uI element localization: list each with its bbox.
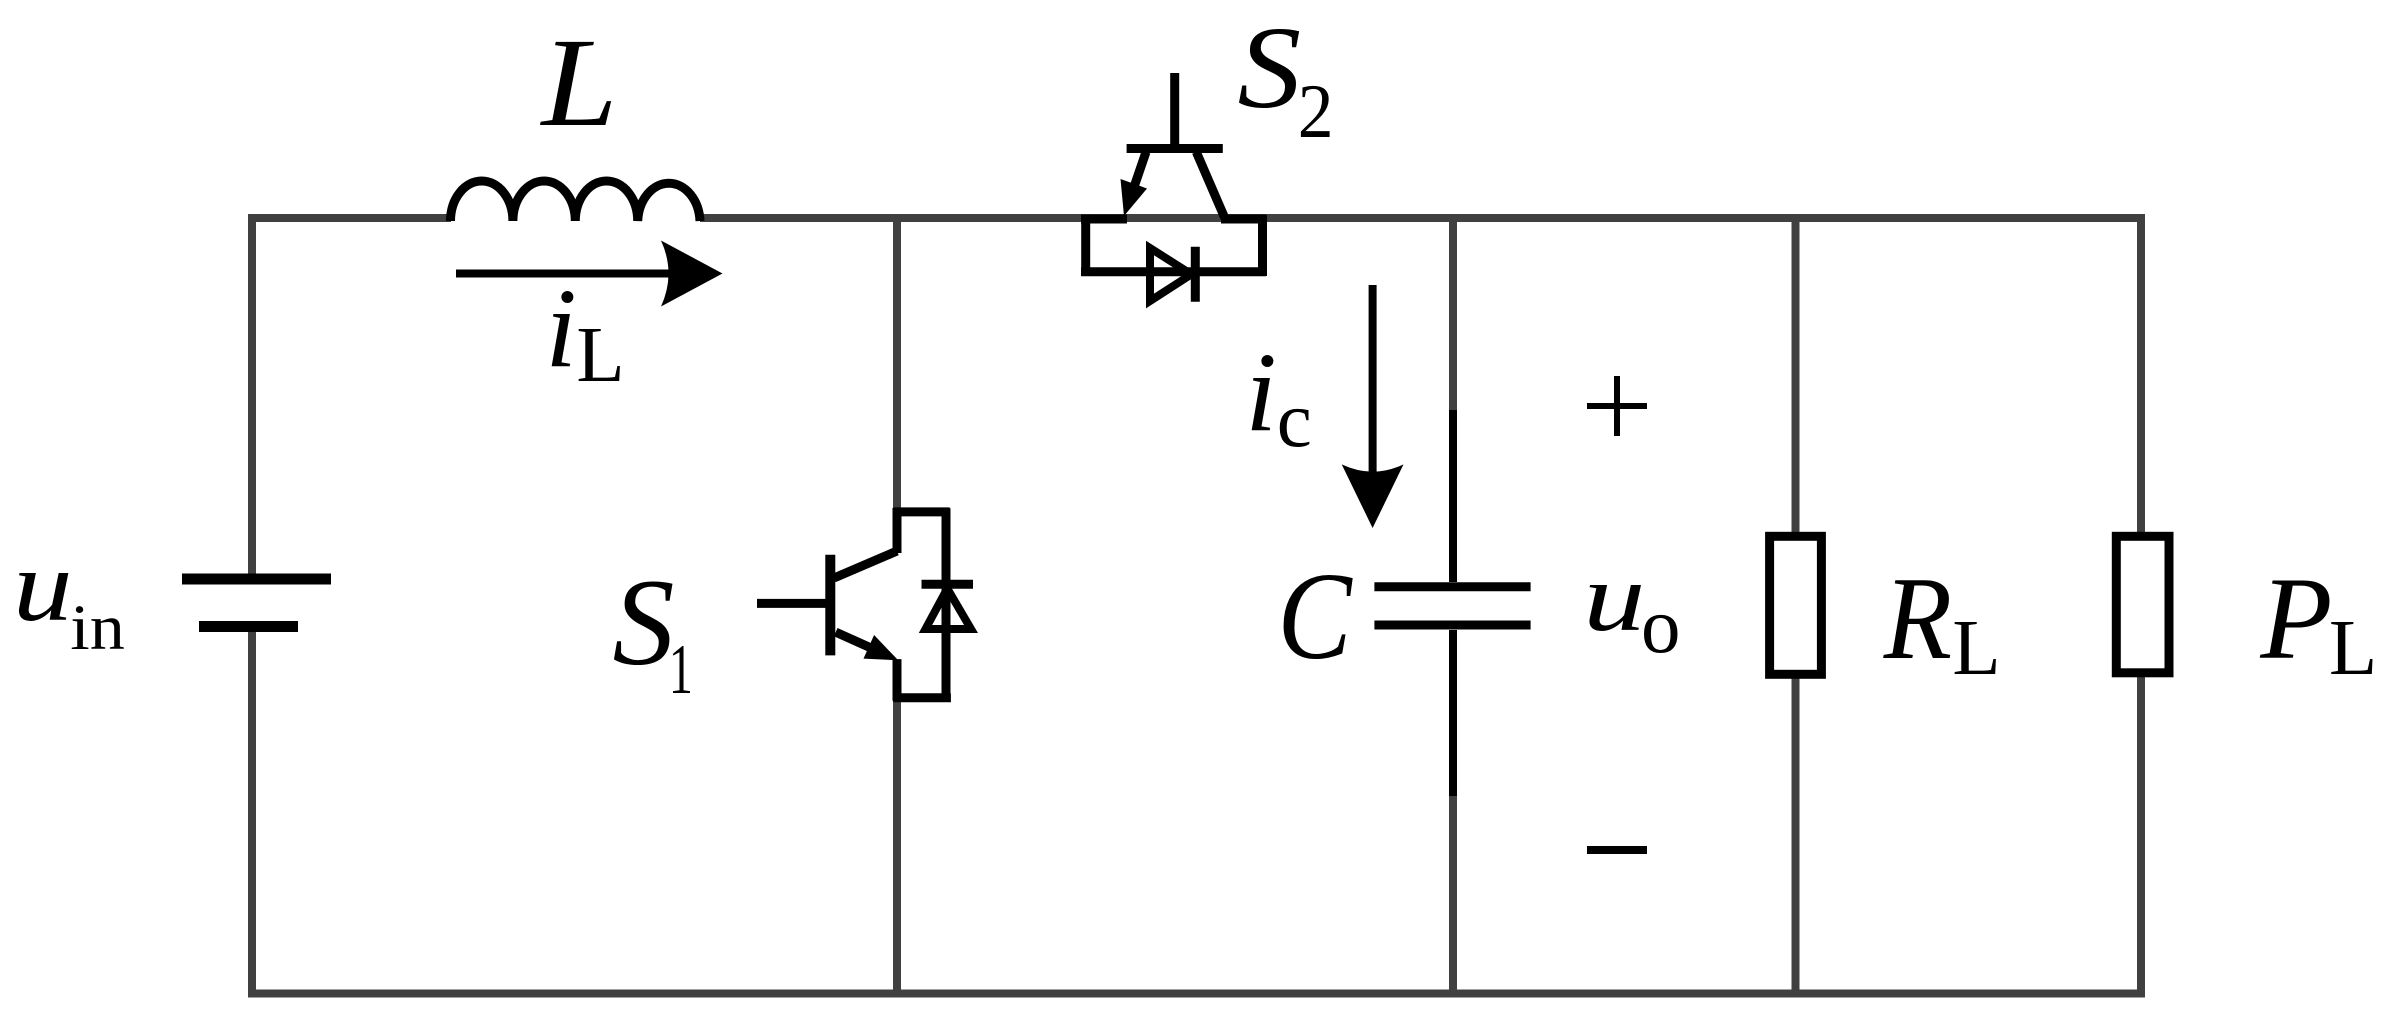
svg-text:L: L [576,312,624,399]
svg-text:u: u [13,530,73,643]
svg-text:1: 1 [669,631,693,709]
svg-text:L: L [2329,605,2377,692]
svg-text:L: L [1952,605,2000,692]
svg-text:o: o [1641,583,1681,670]
svg-text:c: c [1277,377,1312,464]
svg-text:P: P [2259,553,2332,684]
svg-text:i: i [1245,330,1276,455]
svg-text:L: L [540,11,618,153]
svg-text:u: u [1583,543,1645,651]
svg-text:S: S [1238,2,1302,133]
svg-text:R: R [1883,552,1952,684]
svg-text:in: in [70,591,125,663]
svg-text:2: 2 [1298,70,1334,155]
svg-text:S: S [613,554,675,691]
svg-text:i: i [545,266,576,391]
svg-text:C: C [1277,547,1353,685]
